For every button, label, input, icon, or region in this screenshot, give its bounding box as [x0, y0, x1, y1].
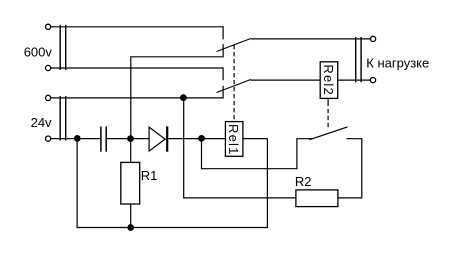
- svg-text:К нагрузке: К нагрузке: [366, 55, 429, 70]
- svg-text:24v: 24v: [31, 115, 52, 130]
- svg-text:R1: R1: [141, 168, 158, 183]
- svg-text:Rel1: Rel1: [226, 124, 241, 156]
- svg-text:Rel2: Rel2: [321, 64, 336, 96]
- svg-text:R2: R2: [295, 174, 312, 189]
- svg-text:600v: 600v: [24, 45, 53, 60]
